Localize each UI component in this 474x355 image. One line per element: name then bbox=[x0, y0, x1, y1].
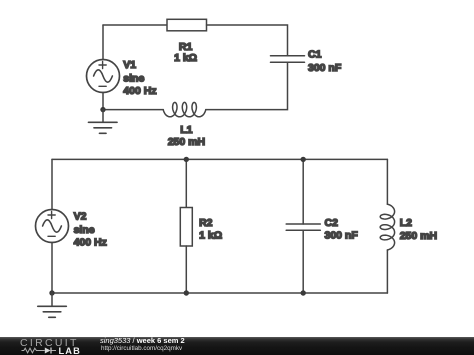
wire top rail to R1 bbox=[103, 24, 167, 26]
resistor zigzag icon bbox=[22, 348, 42, 353]
inductor L1 bbox=[163, 102, 206, 116]
wire R2 bottom bbox=[185, 246, 187, 293]
wire left rail V2 top bbox=[51, 159, 53, 209]
wire C2 top bbox=[302, 159, 304, 224]
node junction top rail R2 bbox=[184, 157, 189, 162]
svg-text:sine: sine bbox=[74, 224, 95, 236]
svg-text:400 Hz: 400 Hz bbox=[74, 236, 107, 248]
svg-text:300 nF: 300 nF bbox=[325, 230, 359, 242]
svg-text:R1: R1 bbox=[179, 41, 193, 53]
svg-text:250 mH: 250 mH bbox=[168, 136, 205, 148]
svg-text:300 nF: 300 nF bbox=[308, 62, 342, 74]
footer watermark bar bbox=[0, 337, 474, 355]
capacitor C2 bbox=[286, 224, 320, 230]
wire V1 bottom bbox=[102, 93, 104, 110]
wire L2 bottom corner bbox=[386, 250, 388, 293]
wire V2 bottom bbox=[51, 243, 53, 294]
resistor R2 bbox=[180, 208, 192, 247]
svg-text:C2: C2 bbox=[325, 217, 339, 229]
wire L2 top corner bbox=[386, 159, 388, 204]
footer line 2: url bbox=[101, 345, 182, 352]
CircuitLab logo symbol + LAB bbox=[20, 345, 82, 355]
wire R1 to C1 corner bbox=[207, 25, 288, 56]
footer line 1: user / title bbox=[100, 336, 185, 345]
ground bottom circuit bbox=[38, 293, 67, 317]
wire C1 down to bottom-right corner bbox=[206, 62, 288, 109]
svg-text:V2: V2 bbox=[74, 211, 87, 223]
svg-text:400 Hz: 400 Hz bbox=[123, 85, 156, 97]
node junction top rail C2 bbox=[301, 157, 306, 162]
node junction bottom rail C2 bbox=[301, 290, 306, 295]
svg-text:250 mH: 250 mH bbox=[400, 230, 437, 242]
svg-text:1 kΩ: 1 kΩ bbox=[199, 230, 222, 242]
ground top circuit bbox=[89, 110, 118, 134]
wire bottom rail bbox=[52, 292, 387, 294]
svg-text:L2: L2 bbox=[400, 217, 412, 229]
node junction V1/L1/ground bbox=[100, 107, 105, 112]
wire bottom circuit top rail bbox=[52, 158, 387, 160]
svg-text:R2: R2 bbox=[199, 217, 213, 229]
node junction bottom rail V2 bbox=[49, 290, 54, 295]
wire L1 left to V1 bottom junction bbox=[103, 109, 163, 111]
wire top-left vertical bbox=[102, 25, 104, 60]
svg-text:LAB: LAB bbox=[59, 346, 81, 355]
wire C2 bottom bbox=[302, 230, 304, 293]
svg-text:1 kΩ: 1 kΩ bbox=[174, 52, 197, 64]
svg-text:V1: V1 bbox=[123, 59, 136, 71]
capacitor C1 bbox=[271, 56, 305, 62]
node junction bottom rail R2 bbox=[184, 290, 189, 295]
svg-text:sine: sine bbox=[123, 73, 144, 85]
svg-text:L1: L1 bbox=[180, 124, 192, 136]
svg-text:C1: C1 bbox=[308, 49, 322, 61]
diode icon bbox=[45, 348, 51, 354]
resistor R1 bbox=[167, 19, 207, 31]
inductor L2 bbox=[380, 204, 394, 250]
CircuitLab logo wordmark CIRCUIT bbox=[20, 337, 79, 349]
voltage source V2 bbox=[36, 210, 69, 243]
wire R2 top bbox=[185, 159, 187, 207]
voltage source V1 bbox=[87, 60, 120, 93]
